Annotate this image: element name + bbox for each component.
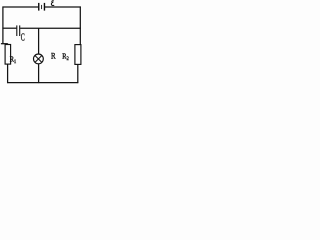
wire elbow left wire to R1 top — [1, 43, 8, 45]
capacitor C plates — [17, 25, 20, 36]
wire left vertical — [2, 6, 4, 44]
lamp R (circle with cross) — [34, 54, 44, 64]
wire R2 bottom — [77, 64, 79, 83]
wire R1 top stub — [7, 43, 9, 46]
resistor R2 box — [75, 45, 81, 65]
svg-text:R: R — [51, 51, 56, 61]
wire R1 bottom — [7, 64, 9, 83]
wire capacitor right lead to right vertical — [20, 27, 81, 29]
svg-text:C: C — [21, 31, 25, 43]
wire right vertical — [79, 6, 81, 44]
wire lamp branch upper — [38, 28, 40, 54]
wire bottom bus — [7, 82, 78, 84]
wire capacitor left lead — [2, 27, 16, 29]
label ε (EMF) — [51, 1, 54, 6]
svg-text:R2: R2 — [62, 53, 69, 62]
resistor R1 box — [5, 45, 11, 65]
wire top-left (battery left lead) — [3, 6, 39, 8]
battery ε plates — [39, 3, 45, 11]
wire top-right (battery right lead) — [45, 6, 81, 8]
wire lamp branch lower — [38, 64, 40, 83]
